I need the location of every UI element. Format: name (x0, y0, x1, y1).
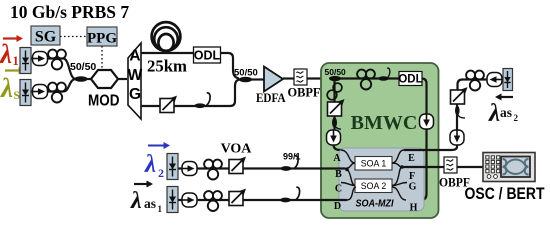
waveguide port B fork (339, 163, 355, 186)
isolator row2 (33, 85, 48, 99)
isolator lambda2 row (182, 162, 197, 176)
laser diode LD1 (20, 48, 31, 74)
wire EDFA to OBPF (283, 77, 295, 79)
svg-text:A: A (129, 48, 140, 65)
svg-text:F: F (409, 171, 415, 182)
attenuator VOA in BMWC (328, 99, 345, 116)
svg-text:λ: λ (0, 39, 12, 69)
polarization controller as2 (466, 71, 484, 91)
polarization controller lambda2 row (204, 160, 222, 180)
wire coupler to MOD (87, 78, 92, 80)
waveguide port C (341, 183, 355, 186)
svg-text:OBPF: OBPF (288, 85, 321, 100)
svg-text:VOA: VOA (221, 142, 253, 157)
polarization controller as1 row (204, 191, 222, 211)
waveguide combiner to F (392, 163, 402, 186)
svg-text:B: B (335, 169, 342, 180)
svg-text:S: S (14, 90, 20, 102)
optical delay line ODL top (194, 47, 221, 63)
wire row lambda1 (31, 59, 76, 80)
coupler 99/1 (280, 166, 291, 171)
wire port E out to lambda as2 chain (404, 145, 457, 150)
SOA 1 (355, 157, 392, 171)
laser lambda1 label (0, 35, 23, 69)
svg-text:2: 2 (158, 166, 164, 180)
signal generator SG (31, 26, 60, 46)
isolator row1 (33, 52, 48, 66)
svg-text:PPG: PPG (87, 31, 117, 47)
filter OBPF after EDFA (294, 69, 307, 85)
svg-text:25km: 25km (147, 57, 187, 76)
AWG demux (128, 43, 143, 119)
filter OBPF2 (444, 157, 457, 173)
svg-text:10 Gb/s PRBS 7: 10 Gb/s PRBS 7 (10, 2, 129, 22)
wire AWG bottom output to merge (141, 79, 241, 106)
optical delay line ODL in BMWC (398, 72, 422, 86)
waveguide port D (339, 187, 356, 200)
dotted link PPG to MOD (101, 46, 103, 70)
svg-text:C: C (335, 184, 342, 195)
instrument OSC/BERT (483, 153, 535, 182)
svg-text:G: G (129, 86, 141, 103)
SOA-MZI box (339, 148, 424, 211)
wire isolator to port A (334, 145, 343, 151)
laser lambda5 label (0, 67, 25, 103)
svg-text:MOD: MOD (88, 93, 120, 110)
waveguide port E (392, 150, 404, 163)
tap hook BMWC top (387, 68, 390, 78)
waveguide port H (392, 187, 406, 200)
wire ODL down right side to port H (406, 79, 427, 201)
svg-text:λ: λ (130, 188, 142, 214)
svg-text:SOA 1: SOA 1 (361, 159, 387, 169)
polarization controller BMWC vertical (327, 83, 342, 100)
svg-text:ODL: ODL (194, 49, 221, 63)
svg-text:2: 2 (514, 113, 519, 123)
svg-text:E: E (408, 153, 415, 164)
dotted link SG to PPG (60, 36, 87, 38)
SOA 2 (355, 179, 392, 193)
wire lambda as1 row (178, 199, 347, 201)
svg-text:BMWC: BMWC (351, 112, 418, 134)
svg-text:λ: λ (144, 151, 156, 178)
waveguide port G (392, 183, 407, 186)
svg-text:50/50: 50/50 (325, 67, 347, 77)
svg-text:W: W (128, 67, 143, 84)
modulator MOD (88, 70, 120, 110)
coupler at BMWC input (329, 76, 341, 81)
wire AWG top output to merge (141, 53, 239, 79)
svg-text:SG: SG (35, 29, 57, 46)
waveguide port A (341, 150, 356, 163)
wire MOD to AWG (118, 78, 127, 80)
wire lambda2 row (178, 167, 345, 169)
svg-text:1: 1 (13, 54, 19, 68)
svg-text:λ: λ (488, 100, 500, 127)
coupler tap BMWC top (378, 76, 388, 80)
amplifier EDFA (256, 67, 286, 106)
laser lambda as1 label (130, 181, 163, 215)
coupler 50/50 before EDFA (239, 77, 252, 83)
wire port F to OBPF2 (402, 166, 445, 168)
svg-text:G: G (409, 182, 417, 193)
svg-text:SOA-MZI: SOA-MZI (356, 198, 395, 210)
wire OBPF2 to OSC (457, 166, 484, 168)
polarization controller row2 (48, 83, 66, 103)
junction node B (345, 168, 349, 172)
polarization controller BMWC top (357, 70, 375, 90)
isolator down lambda as2 (450, 130, 464, 145)
junction node F (400, 165, 404, 169)
svg-text:50/50: 50/50 (70, 61, 96, 73)
svg-text:SOA 2: SOA 2 (361, 181, 387, 191)
tap hook 99/1 (295, 156, 299, 169)
coupler teardrop in BMWC (332, 117, 341, 129)
svg-text:A: A (333, 153, 341, 164)
svg-text:D: D (334, 201, 341, 212)
BMWC box (321, 63, 439, 218)
svg-text:λ: λ (0, 73, 13, 103)
wire isolator to laser as2 (502, 78, 505, 80)
svg-text:1: 1 (158, 204, 163, 214)
laser diode LD2 (167, 154, 178, 180)
coupler tap as1 row (280, 198, 291, 203)
laser diode LD5 (20, 80, 31, 106)
isolator down to port A (327, 130, 341, 145)
laser lambda2 label (144, 142, 170, 180)
isolator down on ODL line (420, 114, 434, 129)
tap hook as1 row (296, 187, 300, 200)
polarization controller row1 (48, 50, 66, 70)
tap hook bottom path (207, 93, 211, 106)
coupler teardrop as2 (455, 106, 465, 118)
isolator as1 row (182, 193, 197, 207)
wire row lambda5 (31, 79, 76, 92)
laser diode LDas1 (167, 187, 178, 213)
attenuator VOA as1 row (229, 189, 246, 206)
svg-text:as: as (500, 105, 512, 120)
wire as2 vertical (456, 104, 458, 131)
coupler tap bottom path (194, 103, 205, 108)
attenuator VOA lambda2 row (229, 157, 246, 174)
laser diode LDas2 (503, 69, 513, 91)
attenuator VOA as2 (451, 87, 468, 104)
wire coupler to EDFA (251, 78, 264, 80)
laser lambda as2 label (488, 94, 519, 128)
svg-text:EDFA: EDFA (256, 90, 286, 105)
svg-text:as: as (144, 196, 156, 211)
svg-text:H: H (410, 203, 418, 214)
wire BMWC top internal (330, 77, 399, 79)
coupler 50/50 before MOD (75, 76, 88, 82)
wire VOA to PC as2 (458, 80, 489, 91)
svg-text:OSC / BERT: OSC / BERT (465, 185, 545, 203)
wire BMWC pump branch down (333, 80, 335, 131)
svg-text:ODL: ODL (398, 74, 422, 86)
isolator left arrow as2 (487, 73, 502, 87)
pulse pattern generator PPG (87, 27, 117, 47)
attenuator VOA bottom path (160, 96, 177, 113)
fiber spool 25km (152, 22, 181, 51)
wire OBPF to BMWC (307, 77, 330, 79)
